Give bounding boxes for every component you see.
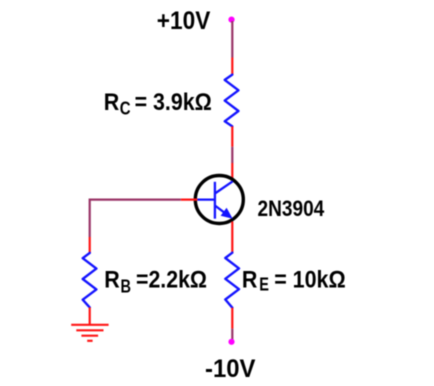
wire red below RE [231,308,233,329]
svg-text:-10V: -10V [205,355,256,383]
node -10V terminal dot [228,339,234,345]
wire red emitter down [231,222,233,254]
label RE = 10k ohm [242,267,346,295]
transistor Q1 base bar [214,182,216,219]
wire red below RB to ground [89,307,91,325]
transistor Q1 circle [195,176,243,224]
svg-text:+10V: +10V [157,7,211,35]
wire maroon left vertical [89,199,91,238]
wire maroon from +10V dot down [231,21,233,58]
transistor Q1 base lead [197,198,215,200]
svg-text:R: R [104,89,120,116]
wire maroon base horizontal [90,199,181,201]
transistor Q1 emitter arrowhead [221,208,233,219]
resistor RC zigzag [225,75,239,127]
wire red below RC [231,126,233,146]
resistor RB zigzag [83,253,97,308]
node +10V terminal dot [228,17,234,23]
wire red to top of RC [231,58,233,76]
svg-text:R: R [242,267,258,294]
label RB = 2.2k ohm [104,267,207,297]
svg-text:= 3.9kΩ: = 3.9kΩ [135,89,212,116]
transistor Q1 emitter lead [215,206,227,215]
ground symbol [71,325,108,341]
svg-text:B: B [121,277,132,297]
wire red base from left [181,199,198,201]
wire maroon to -10V dot [231,329,233,340]
svg-text:C: C [120,99,131,119]
transistor Q1 collector lead [215,181,233,193]
wire maroon segment collector [231,147,233,163]
resistor RE zigzag [225,253,239,308]
svg-text:2N3904: 2N3904 [258,196,325,221]
svg-text:= 10kΩ: = 10kΩ [274,267,346,294]
svg-text:R: R [104,267,120,294]
wire red into transistor collector [231,163,233,181]
svg-text:=2.2kΩ: =2.2kΩ [136,267,207,294]
wire red to top of RB [89,237,91,253]
svg-text:E: E [259,275,269,295]
label RC = 3.9k ohm [104,89,212,119]
